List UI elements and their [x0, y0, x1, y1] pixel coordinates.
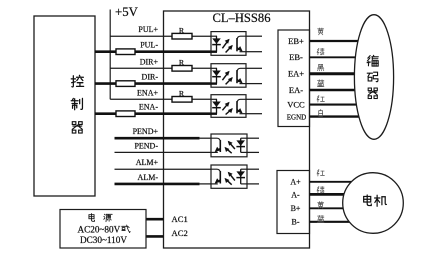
- terminal block J1 (encoder signals): [278, 30, 310, 127]
- svg-text:CL–HSS86: CL–HSS86: [213, 11, 271, 25]
- svg-text:R: R: [179, 26, 185, 35]
- svg-text:ENA-: ENA-: [139, 103, 158, 112]
- wire colour label 黑: [317, 64, 323, 70]
- wire PUL+: [110, 35, 211, 37]
- wire DIR- (thick): [95, 82, 211, 85]
- wire colour label 蓝: [317, 80, 324, 87]
- svg-text:AC2: AC2: [172, 228, 188, 238]
- optocoupler U5 (PEND) (output, phototransistor left / LED right): [211, 134, 247, 157]
- wire U2 (PUL) emitter stub: [246, 51, 262, 53]
- wire B- to motor: [310, 221, 353, 223]
- optocoupler U4 (ENA) (input, LED left / phototransistor right): [211, 95, 246, 118]
- +5V rail (vertical wire): [109, 10, 111, 100]
- optocoupler U6 (ALM) (output, phototransistor left / LED right): [211, 165, 247, 188]
- resistor R2 (PUL- series): [116, 49, 135, 55]
- svg-text:ALM+: ALM+: [136, 158, 159, 167]
- svg-text:DIR-: DIR-: [142, 73, 159, 82]
- wire PEND-: [115, 151, 212, 153]
- wire ENA- (thick): [95, 112, 211, 115]
- svg-text:PUL-: PUL-: [140, 41, 158, 50]
- svg-text:R: R: [179, 89, 185, 98]
- wire U3 (DIR) collector stub: [246, 67, 262, 69]
- svg-text:+5V: +5V: [115, 5, 139, 19]
- driver box U1 CL-HSS86: [164, 11, 310, 248]
- wire U6 (ALM) cathode stub: [246, 183, 259, 185]
- svg-text:EGND: EGND: [287, 113, 307, 122]
- wire U6 (ALM) anode stub: [246, 168, 259, 170]
- wire ALM+: [115, 168, 212, 170]
- motor (circle): [343, 173, 404, 234]
- wire ENA+: [110, 98, 211, 100]
- resistor R4 (DIR- series): [116, 81, 135, 87]
- svg-text:DIR+: DIR+: [140, 57, 159, 66]
- wire DIR+: [110, 67, 211, 69]
- wire PEND+ (thick): [115, 137, 200, 140]
- wire ALM- (thick): [115, 183, 200, 186]
- wire B+ to motor: [310, 207, 353, 209]
- svg-text:A+: A+: [290, 178, 301, 187]
- wire PUL- (thick): [95, 50, 211, 53]
- svg-text:VCC: VCC: [287, 100, 305, 110]
- wire A+ to motor: [310, 181, 353, 183]
- label 电源 (power supply): [89, 214, 112, 222]
- wire colour label 白: [319, 110, 323, 117]
- controller box: [34, 16, 95, 196]
- encoder (ellipse): [354, 15, 393, 140]
- resistor R5 (ENA+ series): [172, 97, 192, 103]
- wire U5 (PEND) cathode stub: [246, 151, 259, 153]
- svg-text:PEND-: PEND-: [134, 141, 158, 150]
- svg-text:PUL+: PUL+: [138, 25, 158, 34]
- svg-text:ENA+: ENA+: [137, 88, 158, 97]
- wire EA+ to encoder: [310, 72, 368, 75]
- svg-text:ALM-: ALM-: [138, 173, 159, 182]
- wire U2 (PUL) collector stub: [246, 35, 262, 37]
- optocoupler U3 (DIR) (input, LED left / phototransistor right): [211, 64, 246, 87]
- wire colour label 黄: [318, 28, 324, 35]
- wire EB- to encoder: [310, 56, 368, 58]
- wire A- to motor: [310, 193, 353, 196]
- svg-text:AC20~80V: AC20~80V: [78, 224, 121, 234]
- wire colour label 黄: [318, 202, 324, 209]
- wire EB+ to encoder: [310, 40, 368, 42]
- wire U4 (ENA) collector stub: [246, 98, 262, 100]
- value label AC20~80V或: [78, 224, 131, 234]
- svg-text:R: R: [179, 58, 185, 67]
- terminal block J2 (motor phases): [277, 171, 310, 234]
- resistor R3 (DIR+ series): [172, 66, 192, 72]
- svg-text:PEND+: PEND+: [133, 127, 159, 136]
- wire EA- to encoder: [310, 89, 368, 91]
- wire VCC to encoder: [310, 104, 368, 106]
- wire U4 (ENA) emitter stub: [246, 113, 262, 115]
- label 编码器 (encoder): [367, 55, 378, 98]
- svg-text:B-: B-: [292, 218, 300, 227]
- resistor R1 (PUL+ series): [172, 33, 192, 39]
- resistor R6 (ENA- series): [116, 111, 135, 117]
- wire colour label 红: [317, 96, 324, 102]
- wire U3 (DIR) emitter stub: [246, 83, 262, 85]
- svg-text:EA+: EA+: [288, 69, 304, 79]
- label 控制器 (controller): [71, 75, 83, 133]
- wire colour label 绿: [317, 187, 324, 193]
- svg-text:AC1: AC1: [172, 214, 188, 224]
- svg-text:EB+: EB+: [288, 36, 304, 46]
- optocoupler U2 (PUL) (input, LED left / phototransistor right): [211, 32, 246, 56]
- wire U5 (PEND) anode stub: [246, 137, 259, 139]
- label 电机 (motor): [364, 195, 387, 206]
- wire EGND to encoder: [310, 115, 368, 117]
- svg-text:EB-: EB-: [289, 52, 303, 62]
- wire colour label 蓝: [317, 215, 324, 222]
- wire colour label 绿: [317, 48, 324, 54]
- wire colour label 红: [317, 170, 324, 176]
- svg-text:DC30~110V: DC30~110V: [80, 235, 127, 245]
- power supply box PS1: [60, 210, 146, 249]
- wire AC2 (thick): [146, 235, 164, 238]
- svg-text:B+: B+: [291, 204, 301, 213]
- svg-text:EA-: EA-: [289, 85, 303, 95]
- wire AC1 (thick): [146, 218, 164, 221]
- svg-text:A-: A-: [291, 190, 300, 199]
